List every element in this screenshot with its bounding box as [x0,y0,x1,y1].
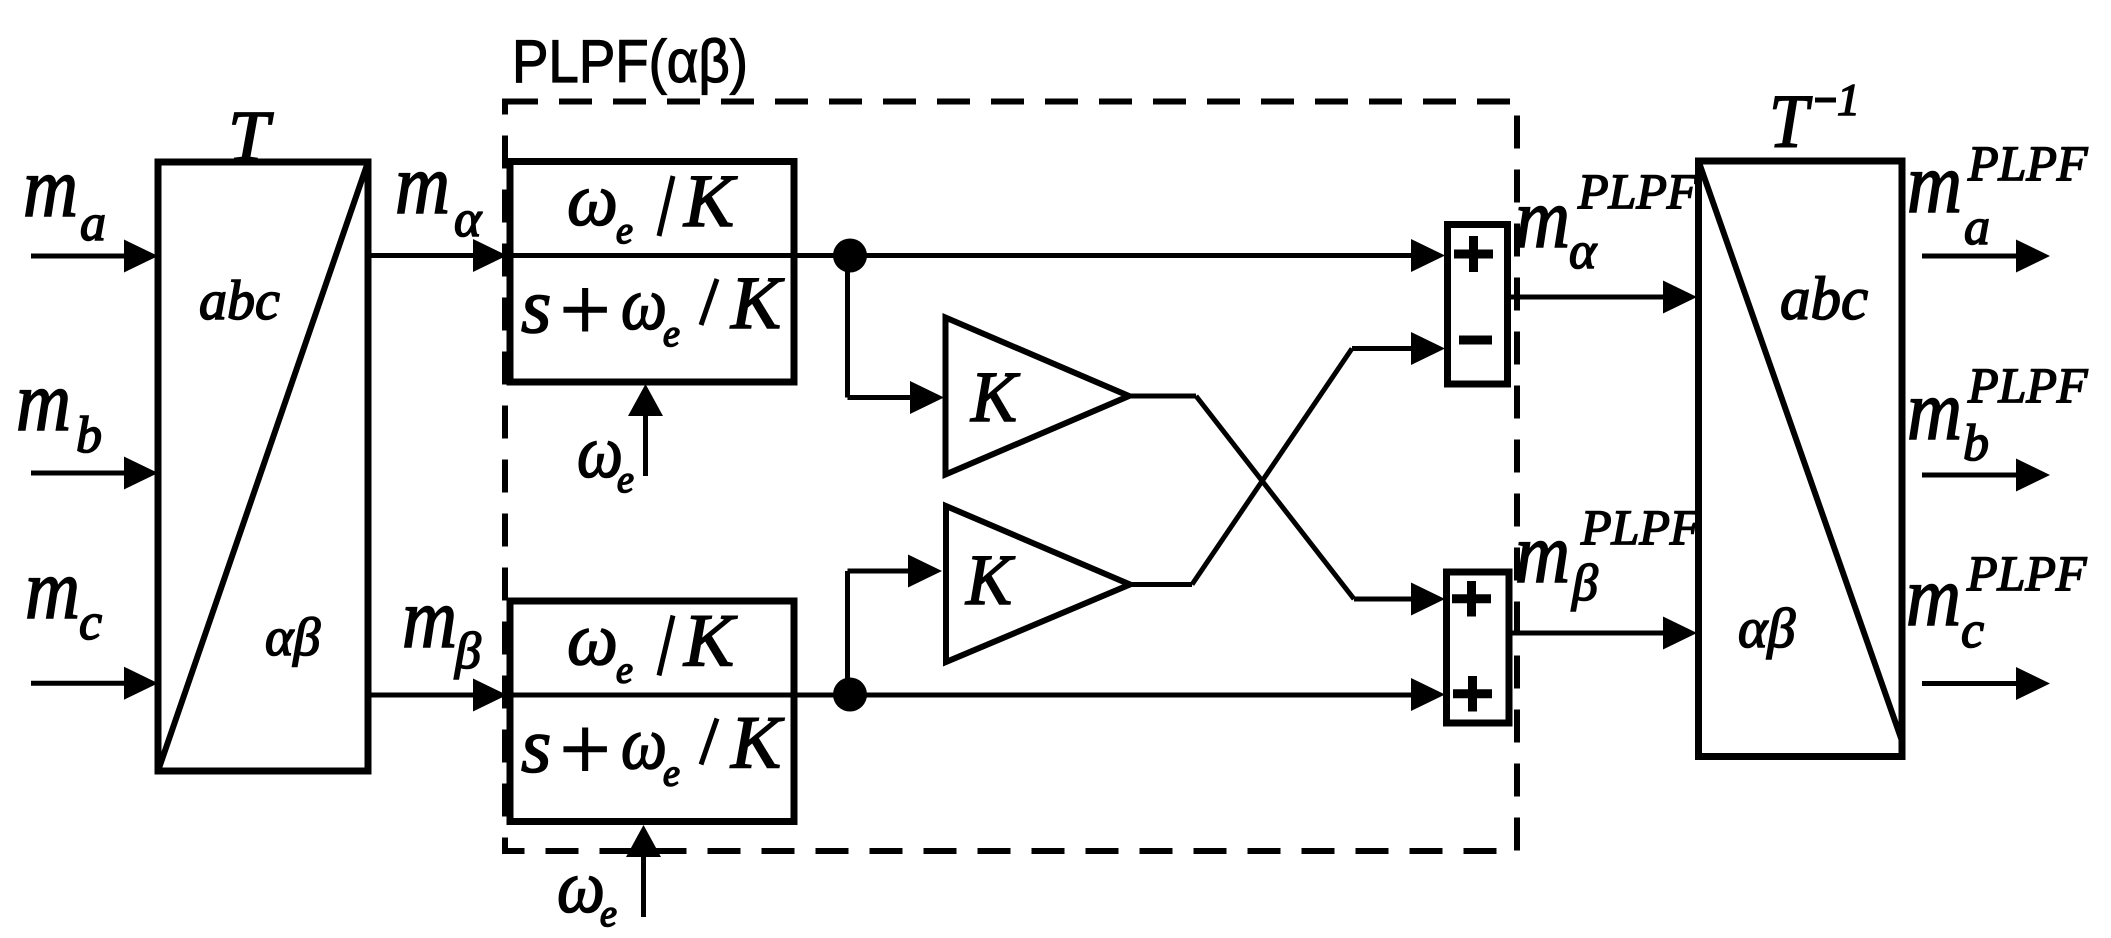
svg-text:s: s [521,262,551,349]
wire input m_a [31,254,130,259]
filter block 1 (upper transfer function) [510,162,794,383]
wire top row from block1 to sum1 [794,253,1414,258]
value numerator we/K block2 [567,599,738,692]
node dot upper tap [833,239,867,273]
svg-text:+: + [554,261,615,360]
svg-text:αβ: αβ [1738,598,1795,660]
wire output m_a_PLPF [1922,254,2018,259]
label we lower [557,846,617,935]
svg-text:m: m [1906,548,1961,644]
sign plus top of sum2 [1452,581,1491,617]
svg-text:e: e [600,893,617,935]
wire m_beta from T to filter block 2 [368,693,478,698]
svg-text:K: K [683,600,738,683]
wire output m_b_PLPF [1922,473,2018,478]
wire K2 output cross up to sum1 [1130,349,1414,585]
svg-text:β: β [1571,555,1598,612]
wire input m_b [31,471,130,476]
label m_beta_PLPF [1515,499,1701,612]
node dot lower tap [833,678,867,712]
svg-text:s: s [521,702,551,789]
svg-text:b: b [1963,415,1989,472]
svg-text:1: 1 [1837,74,1860,125]
label m_c_PLPF [1906,545,2087,659]
svg-text:K: K [965,540,1016,620]
svg-text:K: K [970,357,1021,437]
svg-text:PLPF: PLPF [1967,357,2088,413]
svg-text:e: e [617,459,634,501]
svg-text:e: e [616,210,633,252]
svg-text:m: m [23,139,78,235]
svg-text:ω: ω [557,846,605,929]
value denominator s+we/K block2 [521,700,785,799]
svg-text:PLPF: PLPF [1967,135,2088,191]
sign plus bottom of sum2 [1453,676,1492,712]
svg-text:m: m [402,570,457,666]
wire K1 output cross down to sum2 [1129,396,1414,599]
svg-text:m: m [25,541,80,637]
svg-text:b: b [76,407,102,464]
svg-text:a: a [80,195,106,252]
label m_a [23,139,106,252]
svg-text:+: + [554,700,615,799]
svg-text:c: c [79,594,102,651]
svg-text:T: T [228,96,274,176]
gain K1 triangle [946,318,1130,475]
label T-inverse [1769,74,1860,164]
block T abc-to-alphabeta [158,162,368,771]
svg-text:abc: abc [1780,266,1868,333]
svg-text:PLPF: PLPF [1966,545,2087,601]
wire sum1 output to T-inverse [1511,295,1666,300]
wire sum2 output to T-inverse [1512,631,1666,636]
svg-text:αβ: αβ [265,607,320,667]
svg-text:e: e [616,650,633,692]
dashed box PLPF [505,102,1517,852]
svg-text:e: e [663,313,680,355]
svg-text:α: α [1569,223,1598,280]
svg-text:ω: ω [621,703,667,786]
svg-text:m: m [1515,170,1570,266]
sign plus of sum1 [1454,236,1493,272]
svg-text:β: β [454,623,481,680]
svg-text:PLPF: PLPF [1577,163,1698,219]
svg-text:abc: abc [199,270,280,332]
wire tap down to gain K1 [848,256,915,398]
summer sum2 (plus-plus) [1447,572,1510,723]
svg-text:K: K [730,262,785,345]
label m_c [25,541,102,651]
svg-text:PLPF(αβ): PLPF(αβ) [512,28,748,95]
label we upper [577,411,634,501]
label m_alpha_PLPF [1515,163,1698,280]
svg-text:m: m [1515,505,1570,601]
wire we input to block2 [641,853,646,917]
label m_alpha [395,136,483,248]
svg-text:ω: ω [567,159,618,242]
svg-text:m: m [16,353,71,449]
summer sum1 (plus-minus) [1448,225,1508,385]
wire input m_c [31,681,130,686]
svg-text:e: e [663,753,680,795]
svg-text:m: m [1907,135,1962,231]
svg-text:ω: ω [621,263,667,346]
wire bottom row from block2 to sum2 [794,693,1414,698]
svg-text:K: K [730,702,785,785]
block T-inverse alphabeta-to-abc [1699,161,1903,757]
svg-text:a: a [1964,199,1990,256]
svg-text:PLPF: PLPF [1580,499,1701,555]
sign minus of sum1 [1459,336,1492,345]
gain K2 triangle [946,506,1130,662]
wire output m_c_PLPF [1922,681,2018,686]
wire m_alpha from T to filter block 1 [368,253,478,258]
label m_b_PLPF [1907,357,2088,472]
svg-text:m: m [395,136,450,232]
svg-text:m: m [1907,362,1962,458]
value numerator we/K block1 [567,159,738,252]
label m_b [16,353,102,464]
value denominator s+we/K block1 [521,261,785,360]
wire we input to block1 [643,412,648,476]
svg-text:ω: ω [567,599,618,682]
svg-text:K: K [683,160,738,243]
label m_a_PLPF [1907,135,2088,256]
label m_beta [402,570,481,680]
wire tap up to gain K2 [848,571,913,695]
svg-text:α: α [454,191,483,248]
svg-text:T: T [1769,80,1812,164]
svg-text:c: c [1961,602,1984,659]
filter block 2 (lower transfer function) [510,601,794,822]
